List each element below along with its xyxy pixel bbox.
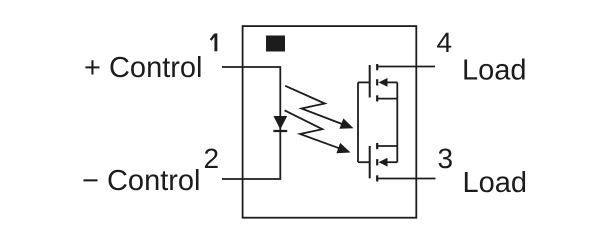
svg-text:Load: Load bbox=[463, 167, 528, 199]
svg-text:Load: Load bbox=[462, 55, 527, 87]
svg-text:4: 4 bbox=[437, 27, 453, 58]
svg-text:+ Control: + Control bbox=[84, 52, 202, 84]
svg-text:3: 3 bbox=[438, 143, 454, 174]
svg-text:− Control: − Control bbox=[82, 165, 200, 197]
svg-text:2: 2 bbox=[204, 143, 220, 174]
